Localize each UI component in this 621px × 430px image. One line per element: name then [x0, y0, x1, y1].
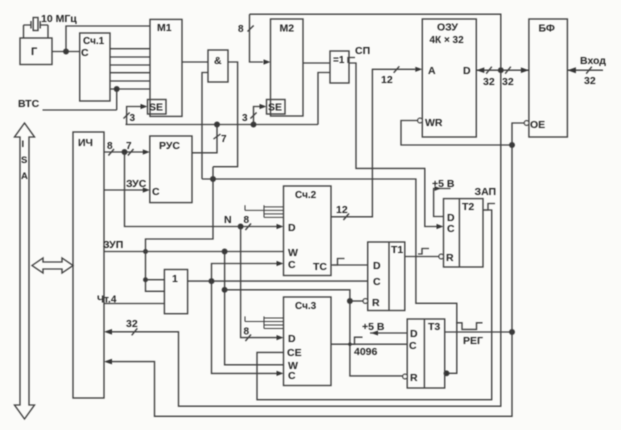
wire OR output common clock to C of T1: [188, 280, 368, 282]
inversion bubble OE of BF: [524, 121, 529, 126]
wire reset line to R of T1 and R of T3: [225, 290, 403, 376]
wire clock down to C of Cch3: [212, 281, 277, 373]
svg-text:8: 8: [107, 141, 113, 152]
inversion bubble R of T2: [439, 254, 444, 259]
wire T1 out to R of T2: [405, 256, 441, 258]
or gate 1 box: [164, 270, 187, 314]
svg-text:7: 7: [126, 141, 132, 152]
svg-text:ТС: ТС: [313, 261, 327, 273]
wire Cch1 to M1 bus line 6: [110, 88, 150, 90]
svg-text:3: 3: [130, 113, 136, 124]
and gate box: [208, 50, 228, 82]
slash 12 near Cch2: [343, 214, 349, 221]
buffer BF box: [529, 19, 568, 137]
svg-text:РЕГ: РЕГ: [463, 335, 483, 347]
wire reset to R of T1: [350, 300, 363, 302]
svg-text:SE: SE: [268, 102, 282, 114]
wire WR to REG net: [401, 121, 512, 146]
svg-text:I: I: [22, 139, 25, 150]
wire SP net: XOR out to C of T2 and down: [349, 63, 437, 227]
svg-text:12: 12: [381, 74, 393, 86]
svg-text:N: N: [224, 214, 232, 226]
svg-text:С: С: [288, 370, 296, 382]
node ZUP first junction: [222, 249, 227, 254]
node T3 side pin junction: [444, 371, 449, 376]
wire D bus down to D of Cch3: [241, 227, 277, 338]
trigger T1 box: [368, 242, 405, 311]
pulse symbol on 4096 line: [350, 337, 363, 344]
wire ZUP from IC to W of Cch2: [104, 251, 284, 253]
wire M1 to AND input: [182, 61, 208, 63]
inversion bubble R of T1: [363, 299, 368, 304]
svg-text:М2: М2: [280, 23, 295, 35]
wire Cch1 to M1 bus line 5: [110, 80, 150, 82]
slash 32 on Vhod: [586, 67, 592, 74]
wire T3 out REG line to vertical: [445, 331, 512, 333]
svg-text:А: А: [428, 65, 436, 77]
data hook bundle into Cch2: [245, 205, 284, 217]
plus5V arrow to D of T3: [370, 332, 407, 334]
svg-text:&: &: [214, 55, 222, 67]
svg-text:SE: SE: [149, 102, 163, 114]
slash 12 near RAM A: [394, 66, 400, 73]
slash 7 on RUS output riser: [214, 134, 221, 139]
ram OZU box: [422, 19, 476, 137]
pulse symbol REG: [456, 323, 483, 330]
node ZUP reset branch: [222, 288, 227, 293]
multiplexer M2 box: [271, 19, 304, 116]
wire D bus between OZU and BF: [476, 69, 529, 71]
wire Cch2 12-bit output up to RAM A: [331, 69, 415, 217]
svg-text:8: 8: [244, 215, 250, 226]
slash 32 left of junction: [486, 67, 492, 74]
pulse symbol ZAP: [484, 204, 495, 211]
trigger T2 box: [444, 199, 484, 267]
wire clock up to C of Cch2: [212, 264, 277, 282]
svg-text:D: D: [288, 333, 296, 345]
svg-text:D: D: [410, 328, 418, 340]
node clock split: [209, 279, 214, 284]
counter Cch3 box: [284, 297, 332, 386]
pulse symbol at SP output: [348, 58, 355, 64]
wire AND right side down to x213: [213, 62, 238, 167]
svg-text:ОЕ: ОЕ: [530, 119, 545, 131]
svg-text:32: 32: [483, 76, 495, 88]
svg-text:ИЧ: ИЧ: [78, 137, 93, 149]
wire bus up to XOR input: [318, 73, 330, 125]
wire G to Cch1 C input: [52, 51, 80, 53]
svg-text:D: D: [373, 260, 381, 272]
svg-text:С: С: [409, 340, 417, 352]
slash 3 on SE2 feed: [250, 113, 256, 119]
wire winding clock feed x213 down to OR gate inputs: [146, 167, 214, 292]
svg-text:D: D: [288, 222, 296, 234]
svg-text:Т3: Т3: [428, 321, 440, 333]
svg-text:8: 8: [244, 327, 250, 338]
svg-text:ЗУП: ЗУП: [103, 239, 123, 251]
svg-text:Чт.4: Чт.4: [97, 295, 117, 306]
svg-text:ОЗУ: ОЗУ: [437, 22, 458, 34]
svg-text:32: 32: [502, 76, 514, 88]
svg-text:Сч.2: Сч.2: [295, 190, 317, 201]
svg-text:С: С: [447, 223, 455, 235]
plus5V bracket to D of T2: [434, 189, 451, 217]
wire Cch1 to M1 bus line 2: [110, 56, 150, 58]
node y179 junction: [211, 177, 216, 182]
slash 8 on D line: [245, 224, 251, 231]
SE sub-box of M1: [148, 100, 167, 115]
svg-text:ВТС: ВТС: [18, 98, 40, 110]
svg-text:4096: 4096: [354, 346, 378, 358]
svg-text:РУС: РУС: [159, 140, 180, 152]
slash 32 at IC input: [132, 328, 138, 335]
node D bus split: [238, 224, 243, 229]
wire Cch3 4096 output to C of T3: [331, 343, 407, 345]
node blob on 4096 line crossing: [348, 343, 351, 346]
wire OE to REG vertical and REG net down to IC: [111, 123, 524, 416]
ISA horizontal double arrow: [32, 258, 73, 273]
wire long net y=179 to T3 side pin: [202, 179, 457, 373]
svg-text:С: С: [288, 259, 296, 271]
register RUS box: [150, 136, 192, 203]
svg-text:С: С: [81, 47, 89, 59]
trigger T3 box: [407, 319, 445, 388]
inversion bubble R of T3: [403, 374, 408, 379]
node reset split: [348, 299, 353, 304]
wire M2 to XOR input: [303, 62, 330, 64]
wire ZUS to C of RUS: [104, 189, 143, 191]
SE sub-box of M2: [267, 100, 286, 115]
multiplexer M1 box: [150, 19, 182, 116]
slash 7 after junction: [128, 149, 134, 156]
wire top data line down around to IC 32 input: [111, 14, 501, 406]
svg-text:W: W: [288, 247, 298, 259]
svg-text:Г: Г: [31, 46, 38, 58]
svg-text:4К × 32: 4К × 32: [430, 35, 465, 46]
svg-text:ЗУС: ЗУС: [126, 178, 147, 190]
svg-text:R: R: [372, 297, 380, 309]
svg-text:WR: WR: [425, 117, 443, 129]
svg-text:ЗАП: ЗАП: [475, 186, 497, 198]
interface IC box: [73, 132, 104, 398]
svg-text:М1: М1: [157, 22, 172, 34]
svg-text:+5 В: +5 В: [362, 321, 385, 333]
svg-text:Т1: Т1: [391, 244, 403, 256]
wire G junction up to M1 top input: [66, 26, 150, 52]
wire M2 8-bit input from top data line: [250, 14, 264, 62]
svg-text:32: 32: [126, 318, 138, 330]
wire T2 out ZAP down to CE of Cch3: [257, 210, 492, 400]
data hook bundle into Cch3: [245, 316, 284, 328]
svg-text:БФ: БФ: [539, 23, 555, 35]
svg-text:Сч.1: Сч.1: [83, 36, 105, 47]
svg-text:+5 В: +5 В: [432, 178, 455, 190]
wire SE1 enable feed with arrow: [127, 107, 141, 125]
svg-text:СП: СП: [355, 45, 370, 57]
wire OR gate upper stub: [146, 279, 165, 281]
slash 3 on SE1 feed: [124, 113, 130, 119]
xor gate box: [330, 51, 349, 83]
svg-text:Вход: Вход: [580, 55, 606, 67]
wire N data line to D of Cch2: [125, 152, 277, 227]
ISA vertical double arrow: [15, 123, 35, 419]
svg-text:32: 32: [584, 75, 596, 87]
slash 8 on M2 input: [248, 26, 254, 32]
node winding feed crosses ZUP: [144, 250, 148, 254]
wire Cch1 to M1 bus line 4: [110, 72, 150, 74]
wire SE2 enable feed with arrow: [254, 107, 261, 125]
wire SE bus y=124.5: [126, 124, 319, 126]
svg-text:S: S: [21, 155, 27, 166]
wire TC of Cch2 to D of T1: [331, 264, 368, 266]
node on winding feed at upper stub: [144, 278, 148, 282]
wire VTS output branch: [43, 89, 117, 110]
counter Cch2 box: [284, 186, 332, 276]
wire Cch1 to M1 bus line 1: [110, 48, 150, 50]
node RUS output junction on bus: [215, 122, 220, 127]
node VTS junction: [114, 87, 119, 92]
svg-text:3: 3: [242, 113, 248, 124]
svg-text:С: С: [152, 186, 160, 198]
wire Cch1 to M1 bus line 3: [110, 64, 150, 66]
svg-text:А: А: [21, 171, 28, 182]
wire RUS output up to bus: [192, 125, 217, 153]
slash 8 on Cch3 D line: [245, 335, 251, 342]
node IC bus junction: [122, 150, 127, 155]
generator G box: [20, 38, 52, 65]
node M2 SE junction on bus: [251, 122, 256, 127]
svg-text:D: D: [463, 65, 471, 77]
svg-text:R: R: [446, 252, 454, 264]
slash 8 on IC bus: [108, 149, 114, 156]
svg-text:С: С: [373, 276, 381, 288]
wire IC 8-bit bus to RUS: [104, 151, 143, 153]
node WR junction on REG net: [510, 143, 515, 148]
inversion bubble WR of OZU: [418, 118, 423, 123]
crystal X1 10 MHz: [24, 25, 49, 38]
wire ZUP branch down to W of Cch3: [225, 252, 284, 365]
svg-text:8: 8: [238, 24, 244, 35]
node REG junction: [510, 330, 515, 335]
node D bus junction: [499, 68, 504, 73]
svg-text:Сч.3: Сч.3: [295, 301, 317, 312]
svg-text:7: 7: [221, 134, 227, 145]
svg-text:10 МГц: 10 МГц: [41, 13, 77, 25]
svg-text:Т2: Т2: [462, 201, 474, 213]
svg-text:1: 1: [172, 273, 178, 285]
wire AND second input from below: [202, 73, 208, 180]
slash 32 right of junction: [505, 67, 511, 74]
pulse symbol on TC line: [333, 259, 345, 266]
svg-text:R: R: [410, 372, 418, 384]
svg-text:=1: =1: [333, 55, 345, 66]
svg-text:12: 12: [336, 204, 348, 216]
wire Vhod input to BF: [567, 69, 603, 71]
wire Cht4 to OR gate: [104, 303, 164, 305]
pulse symbol on T1 output: [418, 249, 429, 255]
svg-text:СЕ: СЕ: [287, 347, 302, 359]
counter Cch1 box: [80, 33, 110, 101]
node G output junction: [64, 49, 69, 54]
